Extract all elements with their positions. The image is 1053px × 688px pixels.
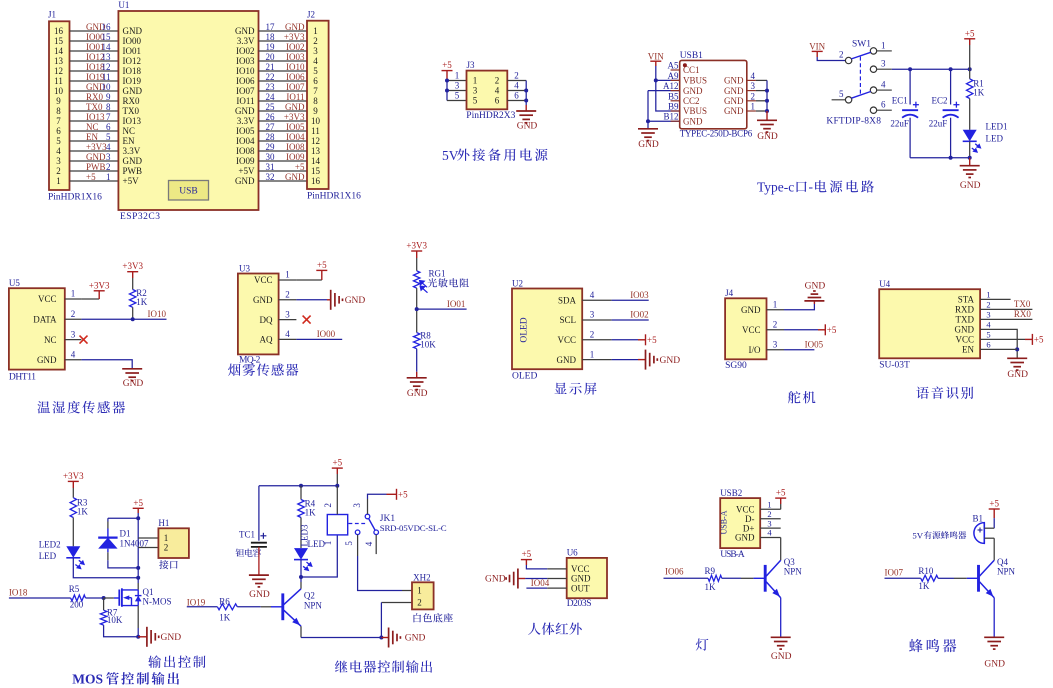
svg-text:9: 9 — [106, 92, 111, 102]
svg-text:IO11: IO11 — [236, 96, 254, 106]
svg-text:XH2: XH2 — [413, 573, 431, 583]
svg-text:10: 10 — [311, 116, 321, 126]
svg-text:R6: R6 — [219, 597, 230, 607]
svg-text:IO09: IO09 — [286, 152, 305, 162]
wire — [259, 90, 308, 92]
svg-text:1: 1 — [417, 586, 422, 596]
power flag +5 — [316, 270, 327, 280]
capacitor TC1 tantalum — [258, 486, 260, 541]
svg-text:PinHDR1X16: PinHDR1X16 — [48, 192, 102, 202]
power flag +5 — [775, 498, 786, 504]
wire — [70, 30, 119, 32]
svg-text:GND: GND — [235, 26, 255, 36]
svg-text:2: 2 — [71, 309, 76, 319]
svg-text:+5: +5 — [522, 549, 532, 559]
svg-text:IO07: IO07 — [236, 86, 255, 96]
svg-text:NC: NC — [86, 122, 99, 132]
wire — [980, 308, 1032, 310]
svg-text:+5: +5 — [647, 335, 657, 345]
svg-text:A9: A9 — [668, 71, 679, 81]
voice module U4 SU-03T — [879, 289, 980, 358]
capacitor EC2 22uF — [950, 69, 952, 104]
wire — [612, 339, 638, 341]
junction — [524, 99, 528, 103]
svg-text:IO05: IO05 — [286, 122, 305, 132]
svg-text:2: 2 — [417, 598, 422, 608]
wire — [137, 583, 139, 590]
wire — [259, 140, 308, 142]
resistor R8 10K — [414, 333, 420, 349]
svg-text:25: 25 — [266, 102, 276, 112]
wire — [137, 628, 139, 637]
svg-text:3: 3 — [881, 59, 886, 69]
svg-text:SG90: SG90 — [725, 361, 747, 371]
wire — [104, 625, 139, 637]
svg-text:USB2: USB2 — [720, 488, 742, 498]
wire — [547, 568, 567, 570]
svg-text:RXD: RXD — [955, 305, 975, 315]
wire — [547, 587, 567, 589]
svg-text:B5: B5 — [668, 91, 679, 101]
wire — [138, 537, 158, 539]
svg-text:14: 14 — [102, 42, 112, 52]
resistor R2 1K — [130, 290, 136, 308]
svg-text:+3V3: +3V3 — [284, 112, 305, 122]
wire — [938, 577, 954, 579]
wire — [65, 359, 82, 361]
title smoke sensor — [228, 363, 298, 375]
svg-text:IO00: IO00 — [123, 36, 142, 46]
power flag +5 — [638, 334, 646, 345]
wire — [784, 329, 818, 331]
svg-text:-: - — [809, 179, 814, 194]
junction — [1015, 347, 1019, 351]
power flag +3V3 — [68, 481, 79, 488]
title servo — [788, 391, 816, 403]
svg-text:4: 4 — [364, 541, 374, 546]
wire — [760, 508, 781, 510]
resistor R6 1K — [217, 604, 237, 610]
svg-text:USB1: USB1 — [680, 51, 703, 61]
svg-text:1: 1 — [455, 71, 460, 81]
svg-text:R10: R10 — [918, 566, 934, 576]
power flag +5 — [989, 509, 1000, 518]
svg-text:GND: GND — [741, 305, 761, 315]
svg-text:9: 9 — [56, 96, 61, 106]
svg-text:26: 26 — [266, 112, 276, 122]
svg-text:12: 12 — [102, 62, 111, 72]
svg-text:+5: +5 — [333, 458, 343, 468]
svg-text:27: 27 — [266, 122, 276, 132]
svg-text:OUT: OUT — [571, 583, 590, 593]
wire — [70, 120, 119, 122]
svg-text:5V: 5V — [912, 530, 923, 540]
svg-text:+3V3: +3V3 — [406, 241, 427, 251]
svg-text:1N4007: 1N4007 — [120, 538, 149, 548]
connector J1 PinHDR1X16 — [49, 21, 70, 190]
wire — [612, 319, 649, 321]
svg-text:2: 2 — [773, 320, 778, 330]
title display — [555, 383, 597, 395]
wire — [259, 180, 308, 182]
wire — [138, 547, 158, 549]
wire — [261, 606, 272, 608]
svg-text:R9: R9 — [705, 566, 716, 576]
wire — [301, 637, 381, 639]
esp32 module U1 — [118, 11, 258, 210]
svg-text:7: 7 — [56, 116, 61, 126]
svg-text:1: 1 — [56, 176, 61, 186]
svg-text:+5: +5 — [989, 499, 999, 509]
svg-text:H1: H1 — [158, 518, 169, 528]
svg-text:VCC: VCC — [557, 335, 576, 345]
wire — [70, 130, 119, 132]
svg-text:RX0: RX0 — [123, 96, 141, 106]
svg-text:IO05: IO05 — [236, 126, 255, 136]
sensor U6 D203S — [567, 558, 607, 598]
svg-text:3: 3 — [352, 503, 362, 508]
wire — [656, 79, 680, 81]
svg-text:+5: +5 — [965, 28, 975, 38]
svg-text:U2: U2 — [512, 278, 523, 288]
wire — [9, 597, 71, 599]
svg-text:GND: GND — [960, 181, 981, 191]
wire — [980, 298, 1011, 300]
wire — [81, 318, 166, 320]
wire — [612, 359, 638, 361]
svg-text:17: 17 — [266, 22, 276, 32]
svg-text:7: 7 — [313, 86, 318, 96]
resistor R10 1K — [921, 575, 938, 581]
svg-text:4: 4 — [590, 290, 595, 300]
svg-text:4: 4 — [56, 146, 61, 156]
junction — [136, 576, 140, 580]
wire — [107, 518, 109, 521]
svg-text:TX0: TX0 — [123, 106, 140, 116]
junction — [445, 79, 449, 83]
svg-text:19: 19 — [266, 42, 276, 52]
wire — [980, 338, 1025, 340]
ground — [381, 637, 388, 639]
svg-text:EN: EN — [123, 136, 135, 146]
svg-text:2: 2 — [986, 300, 990, 310]
svg-text:GND: GND — [285, 102, 305, 112]
wire — [507, 100, 526, 102]
sensor U5 DHT11 — [9, 288, 65, 369]
svg-text:IO13: IO13 — [123, 116, 142, 126]
display U2 OLED — [512, 289, 582, 370]
resistor R5 200 — [71, 595, 86, 601]
svg-text:+5: +5 — [133, 498, 143, 508]
junction — [654, 78, 658, 82]
junction — [299, 575, 303, 579]
svg-text:D1: D1 — [120, 528, 131, 538]
ground — [416, 372, 418, 378]
wire — [358, 556, 402, 591]
svg-text:14: 14 — [54, 46, 64, 56]
svg-text:6: 6 — [881, 100, 886, 110]
title output control — [148, 655, 205, 668]
svg-text:IO07: IO07 — [885, 568, 904, 578]
svg-text:IO11: IO11 — [286, 92, 304, 102]
wire — [70, 160, 119, 162]
svg-text:13: 13 — [102, 52, 112, 62]
junction — [136, 635, 140, 639]
ground — [638, 359, 646, 361]
photoresistor RG1 — [414, 271, 420, 288]
svg-text:3: 3 — [106, 152, 111, 162]
svg-text:+5: +5 — [442, 60, 452, 70]
wire — [65, 298, 82, 300]
svg-text:5: 5 — [839, 89, 844, 99]
svg-text:Q2: Q2 — [304, 591, 315, 601]
wire — [137, 513, 139, 583]
wire — [760, 527, 781, 529]
wire — [70, 60, 119, 62]
wire — [647, 91, 649, 129]
buzzer B1 — [974, 523, 984, 544]
svg-text:1: 1 — [285, 270, 290, 280]
wire — [259, 50, 308, 52]
svg-text:13: 13 — [311, 146, 321, 156]
wire — [70, 150, 119, 152]
wire — [766, 80, 768, 111]
svg-text:PWB: PWB — [86, 162, 106, 172]
svg-text:IO04: IO04 — [286, 132, 305, 142]
transistor Q1 N-MOS — [114, 597, 119, 599]
wire — [70, 180, 119, 182]
svg-text:24: 24 — [266, 92, 276, 102]
connector J2 PinHDR1X16 — [307, 21, 329, 189]
wire — [648, 120, 680, 122]
junction — [335, 484, 339, 488]
svg-text:11: 11 — [311, 126, 320, 136]
wire — [259, 130, 308, 132]
wire — [741, 577, 753, 579]
wire — [279, 319, 297, 321]
svg-text:IO18: IO18 — [9, 588, 28, 598]
svg-text:5: 5 — [313, 66, 318, 76]
usb-c connector USB1 — [680, 60, 747, 128]
svg-text:PinHDR2X3: PinHDR2X3 — [466, 111, 515, 121]
wire — [582, 359, 611, 361]
svg-text:10: 10 — [102, 82, 112, 92]
svg-text:4: 4 — [313, 56, 318, 66]
svg-text:PinHDR1X16: PinHDR1X16 — [307, 192, 361, 202]
wire — [722, 577, 741, 579]
svg-text:IO18: IO18 — [123, 66, 142, 76]
svg-text:IO02: IO02 — [236, 46, 255, 56]
svg-text:ESP32C3: ESP32C3 — [120, 212, 160, 222]
svg-text:CC1: CC1 — [683, 65, 700, 75]
svg-text:1: 1 — [751, 102, 756, 112]
svg-text:GND: GND — [683, 116, 703, 126]
svg-text:IO12: IO12 — [123, 56, 142, 66]
svg-text:4: 4 — [71, 350, 76, 360]
wire — [259, 70, 308, 72]
wire — [70, 170, 119, 172]
svg-text:29: 29 — [266, 142, 276, 152]
wire — [72, 518, 74, 547]
svg-text:RX0: RX0 — [86, 92, 104, 102]
wire — [525, 578, 547, 580]
svg-text:3: 3 — [455, 81, 460, 91]
svg-text:I/O: I/O — [749, 345, 761, 355]
wire — [296, 279, 321, 281]
svg-text:U6: U6 — [567, 548, 578, 558]
wire — [300, 626, 302, 637]
svg-text:SDA: SDA — [558, 295, 577, 305]
ground — [525, 105, 527, 111]
svg-text:GND: GND — [805, 282, 826, 292]
svg-text:LED2: LED2 — [39, 539, 61, 549]
wire — [70, 80, 119, 82]
power flag +3V3 — [94, 291, 105, 299]
svg-text:VCC: VCC — [571, 564, 590, 574]
wire — [381, 602, 412, 604]
wire — [447, 90, 467, 92]
svg-text:GND: GND — [123, 86, 143, 96]
wire — [969, 45, 971, 69]
svg-text:+3V3: +3V3 — [89, 280, 110, 290]
svg-text:IO04: IO04 — [531, 578, 550, 588]
svg-text:6: 6 — [986, 340, 990, 350]
svg-text:VIN: VIN — [648, 51, 664, 61]
wire — [70, 100, 119, 102]
ground — [969, 158, 971, 166]
svg-text:1: 1 — [164, 533, 169, 543]
svg-text:200: 200 — [70, 600, 84, 610]
svg-text:16: 16 — [102, 22, 112, 32]
wire — [980, 348, 1017, 350]
led LED1 — [963, 130, 977, 142]
svg-text:B1: B1 — [973, 514, 984, 524]
wire — [525, 81, 527, 106]
svg-text:GND: GND — [37, 355, 57, 365]
power flag +3V3 — [127, 272, 138, 278]
svg-text:GND: GND — [984, 659, 1005, 669]
junction — [765, 109, 769, 113]
svg-text:+3V3: +3V3 — [86, 142, 107, 152]
junction — [379, 636, 383, 640]
svg-text:IO10: IO10 — [236, 66, 255, 76]
svg-text:IO02: IO02 — [286, 42, 305, 52]
transistor Q3 NPN — [764, 565, 767, 592]
svg-text:+5: +5 — [86, 172, 96, 182]
svg-text:13: 13 — [54, 56, 64, 66]
svg-text:1K: 1K — [219, 612, 231, 622]
svg-text:VIN: VIN — [809, 42, 825, 52]
svg-text:7: 7 — [106, 112, 111, 122]
wire — [107, 522, 109, 529]
svg-text:RG1: RG1 — [429, 269, 446, 279]
wire — [817, 57, 845, 61]
svg-text:U5: U5 — [9, 278, 20, 288]
svg-text:GND: GND — [253, 295, 273, 305]
wire — [993, 598, 995, 638]
junction — [415, 307, 419, 311]
svg-text:20: 20 — [266, 52, 276, 62]
wire — [81, 360, 132, 369]
svg-text:2: 2 — [164, 543, 169, 553]
wire — [70, 110, 119, 112]
svg-text:22uF: 22uF — [929, 118, 948, 128]
junction — [102, 596, 106, 600]
svg-text:AQ: AQ — [260, 335, 273, 345]
svg-text:+5V: +5V — [238, 166, 255, 176]
svg-text:J4: J4 — [725, 288, 734, 298]
power flag +3V3 — [411, 251, 422, 258]
svg-text:GND: GND — [285, 172, 305, 182]
svg-text:IO08: IO08 — [236, 146, 255, 156]
svg-text:GND: GND — [123, 156, 143, 166]
svg-text:8: 8 — [56, 106, 61, 116]
svg-text:3: 3 — [473, 86, 478, 96]
svg-text:DQ: DQ — [260, 315, 273, 325]
svg-text:9: 9 — [313, 106, 318, 116]
svg-text:VBUS: VBUS — [683, 106, 707, 116]
wire — [980, 318, 1032, 320]
wire — [65, 339, 82, 341]
svg-text:3: 3 — [751, 81, 756, 91]
diode D1 1N4007 — [107, 529, 109, 538]
svg-text:IO08: IO08 — [286, 142, 305, 152]
svg-text:N-MOS: N-MOS — [143, 596, 172, 606]
svg-text:GND: GND — [235, 176, 255, 186]
wire — [954, 577, 967, 579]
svg-text:NPN: NPN — [997, 567, 1016, 577]
wire — [507, 90, 526, 92]
svg-text:A12: A12 — [663, 81, 679, 91]
resistor R9 1K — [708, 575, 722, 581]
svg-text:3: 3 — [71, 329, 76, 339]
resistor R4 1K — [300, 486, 302, 500]
resistor R7 10K — [103, 598, 105, 610]
wire — [664, 577, 709, 579]
svg-text:1: 1 — [590, 349, 595, 359]
svg-text:3: 3 — [590, 310, 595, 320]
svg-text:GND: GND — [517, 122, 538, 132]
svg-text:1: 1 — [773, 299, 778, 309]
svg-text:IO05: IO05 — [805, 339, 824, 349]
svg-text:1K: 1K — [77, 506, 89, 516]
svg-text:GND: GND — [123, 26, 143, 36]
wire — [70, 70, 119, 72]
svg-text:IO19: IO19 — [187, 597, 206, 607]
svg-text:5V: 5V — [442, 148, 459, 163]
svg-text:Type-c: Type-c — [757, 180, 794, 195]
wire — [980, 329, 1017, 358]
wire — [416, 288, 418, 333]
svg-text:IO03: IO03 — [236, 56, 255, 66]
resistor R1 1K — [969, 69, 971, 79]
wire — [526, 565, 547, 569]
svg-text:GND: GND — [407, 389, 428, 399]
svg-text:15: 15 — [311, 166, 321, 176]
svg-text:5: 5 — [106, 132, 111, 142]
svg-text:2: 2 — [56, 166, 61, 176]
svg-text:6: 6 — [106, 122, 111, 132]
svg-text:1K: 1K — [918, 581, 930, 591]
wire — [65, 318, 82, 320]
wire — [760, 537, 781, 539]
svg-text:A5: A5 — [668, 61, 679, 71]
svg-text:J2: J2 — [307, 10, 315, 20]
wire — [885, 577, 921, 579]
svg-text:USB: USB — [179, 187, 197, 197]
wire — [259, 150, 308, 152]
wire — [526, 587, 547, 589]
